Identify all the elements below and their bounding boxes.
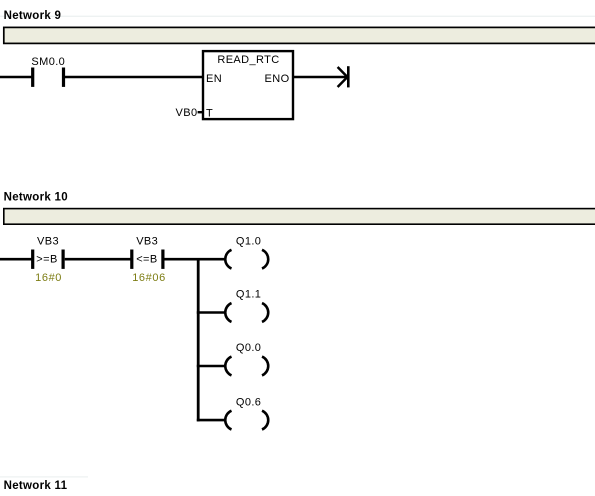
svg-text:Q0.6: Q0.6: [236, 396, 261, 408]
svg-text:ENO: ENO: [265, 73, 290, 85]
svg-text:SM0.0: SM0.0: [31, 56, 65, 68]
svg-text:READ_RTC: READ_RTC: [217, 54, 279, 66]
svg-text:VB3: VB3: [136, 236, 158, 248]
svg-text:T: T: [206, 108, 213, 120]
svg-text:<=B: <=B: [136, 254, 157, 266]
svg-text:Q1.0: Q1.0: [236, 235, 261, 247]
svg-text:Network 9: Network 9: [4, 10, 62, 22]
svg-text:16#0: 16#0: [35, 272, 62, 284]
svg-text:EN: EN: [206, 73, 222, 85]
svg-text:VB3: VB3: [37, 236, 59, 248]
svg-text:Network 11: Network 11: [4, 480, 68, 492]
svg-text:Q0.0: Q0.0: [236, 342, 261, 354]
svg-text:>=B: >=B: [36, 254, 57, 266]
svg-text:VB0: VB0: [176, 107, 198, 119]
svg-text:Q1.1: Q1.1: [236, 289, 261, 301]
svg-text:Network 10: Network 10: [4, 192, 68, 204]
svg-text:16#06: 16#06: [132, 272, 166, 284]
